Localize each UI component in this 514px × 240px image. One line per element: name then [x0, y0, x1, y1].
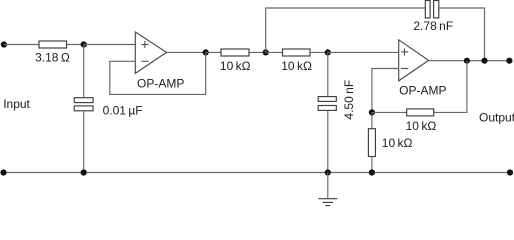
node: output terminal	[506, 58, 512, 64]
svg-text:Input: Input	[3, 97, 30, 111]
wire: C2 to bottom rail	[327, 110, 329, 172]
wire: U1 output to node B	[167, 51, 206, 53]
op-amp U1	[135, 32, 184, 90]
node F junction	[481, 58, 487, 64]
svg-text:4.50 nF: 4.50 nF	[342, 80, 356, 120]
wire: node G to R4	[372, 111, 407, 113]
node C junction	[263, 49, 269, 55]
node G junction	[369, 109, 375, 115]
ground	[318, 173, 337, 206]
node: input terminal	[1, 41, 7, 47]
wire: R2 to node C	[249, 51, 266, 53]
wire: C1 to bottom rail	[83, 111, 85, 173]
node J junction on bottom rail	[369, 169, 375, 175]
wire: R3 to node D	[310, 51, 328, 53]
op-amp U2	[399, 40, 447, 98]
wire: node A down to C1	[83, 45, 85, 98]
wire: R5 to bottom rail	[371, 157, 373, 173]
wire: node D to op-amp U2 noninverting input	[328, 51, 399, 53]
node E junction	[464, 58, 470, 64]
svg-text:Output: Output	[479, 110, 514, 124]
svg-text:10 kΩ: 10 kΩ	[406, 119, 437, 133]
node label Input	[3, 97, 30, 111]
node label Output	[479, 110, 514, 124]
wire: node G down to R5	[371, 112, 373, 128]
node A junction	[81, 41, 87, 47]
svg-text:0.01 µF: 0.01 µF	[103, 104, 143, 118]
resistor R1 3.18 Ohm	[35, 41, 70, 65]
capacitor C3 2.78 nF	[413, 1, 453, 34]
node B junction	[203, 49, 209, 55]
wire: U2 output rail	[429, 60, 510, 62]
resistor R4 10 kOhm	[406, 109, 437, 133]
wire: U1 feedback loop node B to inverting input	[110, 52, 206, 94]
wire: R4 to node E	[434, 61, 467, 113]
resistor R5 10 kOhm	[368, 129, 412, 157]
svg-text:3.18 Ω: 3.18 Ω	[35, 51, 70, 65]
wire: U2 inverting input to node G	[372, 69, 399, 113]
capacitor C1 0.01 uF	[74, 98, 142, 118]
wire: R1 to node A	[67, 44, 84, 46]
wire: node A to op-amp U1 noninverting input	[84, 44, 136, 46]
wire: C3 to node F on output rail	[439, 8, 485, 61]
node: bottom-right terminal	[507, 169, 513, 175]
svg-text:10 kΩ: 10 kΩ	[281, 59, 312, 73]
resistor R3 10 kOhm	[281, 49, 312, 73]
node D junction	[325, 49, 331, 55]
svg-text:2.78 nF: 2.78 nF	[413, 19, 453, 33]
node: bottom-left terminal	[0, 169, 6, 175]
wire: node D down to C2	[327, 52, 329, 96]
wire: bottom rail	[4, 172, 511, 174]
capacitor C2 4.50 nF	[318, 80, 356, 120]
wire: node C to R3	[266, 51, 283, 53]
wire: input terminal to R1	[4, 44, 39, 46]
wire: node B to R2	[206, 51, 221, 53]
svg-text:10 kΩ: 10 kΩ	[220, 59, 251, 73]
node H junction on bottom rail	[81, 169, 87, 175]
resistor R2 10 kOhm	[220, 49, 251, 73]
node I junction on bottom rail	[325, 169, 331, 175]
svg-text:OP-AMP: OP-AMP	[137, 76, 184, 90]
svg-text:OP-AMP: OP-AMP	[399, 84, 446, 98]
wire: node C up to C3	[266, 8, 426, 52]
svg-text:10 kΩ: 10 kΩ	[382, 136, 413, 150]
